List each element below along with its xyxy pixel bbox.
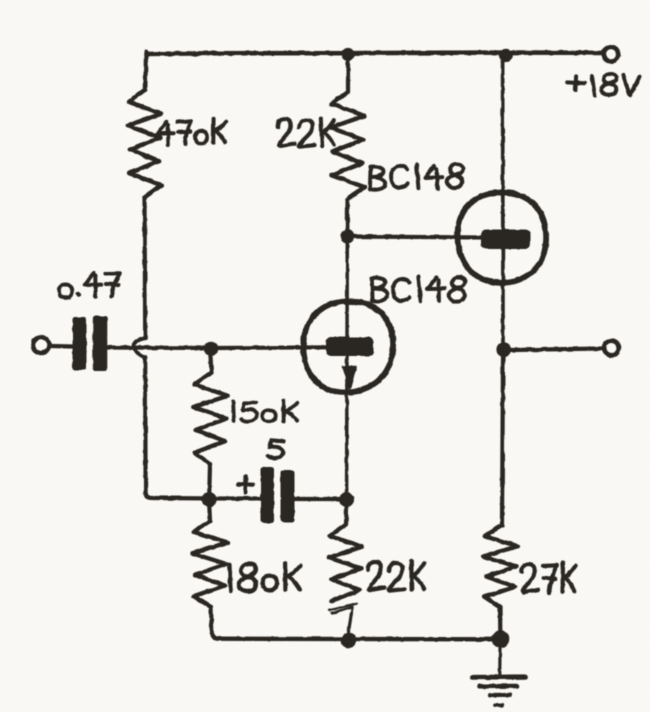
wire 27K bottom lead	[498, 607, 502, 631]
transistor Q1 emitter arrow	[343, 367, 357, 390]
wire left vertical lower	[145, 357, 205, 498]
wire 22K-bottom top lead	[344, 506, 349, 525]
wire 22K-top lead	[346, 56, 350, 92]
resistor R2 22K top	[331, 92, 365, 199]
capacitor C1 0.47 right plate	[93, 316, 108, 371]
label 150K	[233, 401, 298, 422]
node junction top-22K	[341, 48, 354, 61]
resistor R4 180K	[192, 521, 228, 607]
node bottom rail 22K	[341, 633, 357, 649]
transistor Q1 base bar	[327, 338, 373, 355]
wire 470K top lead	[143, 52, 148, 90]
label 180K	[230, 563, 301, 592]
wire C1 to base node	[107, 345, 205, 350]
wire output	[512, 349, 602, 351]
wire top +18V rail	[146, 53, 603, 54]
node output junction	[496, 342, 511, 357]
resistor R3 150K	[193, 373, 228, 464]
wire base node to Q1	[218, 345, 327, 350]
label 0.47	[59, 273, 119, 298]
capacitor C1 0.47 left plate	[73, 317, 87, 370]
terminal input	[33, 337, 49, 353]
wire 22K-bottom lead	[329, 604, 357, 636]
node 5uF right / Q1 emitter	[339, 492, 354, 507]
wire ground stub	[498, 647, 501, 674]
label 22K bottom	[368, 561, 424, 591]
terminal output	[604, 341, 619, 356]
resistor R6 27K	[483, 526, 518, 607]
wire 470K to hop	[142, 197, 147, 338]
wire input to C1	[50, 344, 73, 349]
label 5	[268, 440, 284, 458]
node ground junction	[492, 630, 510, 648]
label BC148 upper	[370, 164, 463, 190]
wire 27K top lead	[502, 356, 503, 526]
wire hop over input wire	[134, 338, 145, 357]
capacitor C2 5uF right plate	[281, 470, 295, 522]
wire 180K to bottom rail	[211, 607, 218, 639]
node Q1 collector / Q2 base	[340, 230, 354, 244]
wire node to C2	[216, 496, 260, 500]
node 5uF left	[202, 492, 217, 507]
wire Q1 collector-emitter vertical	[345, 236, 349, 494]
node base of Q1	[204, 342, 218, 356]
label + of C2	[238, 477, 253, 493]
label 470K	[158, 119, 226, 145]
transistor Q2 base bar	[482, 231, 530, 249]
ground symbol	[473, 677, 527, 706]
node junction top-right	[499, 49, 513, 63]
transistor Q2 circle	[458, 192, 547, 282]
wire bottom rail	[218, 637, 496, 642]
label 22K top	[278, 118, 335, 147]
capacitor C2 5uF left plate	[261, 467, 275, 523]
wire Q2 collector-emitter vertical	[501, 56, 505, 344]
resistor R1 470K	[128, 90, 162, 197]
resistor R5 22K bottom	[329, 525, 362, 601]
wire 180K top lead	[207, 506, 212, 521]
transistor Q1 circle	[303, 301, 393, 392]
wire Q2 base	[354, 237, 483, 238]
label +18V	[567, 74, 639, 96]
label BC148 lower	[372, 277, 465, 302]
wire 22K to collector node	[345, 199, 349, 236]
label 27K	[522, 563, 576, 593]
wire 150K bottom lead	[207, 464, 212, 492]
wire 150K top lead	[211, 356, 212, 373]
wire C2 to right node	[294, 497, 339, 501]
terminal +18V	[604, 47, 618, 61]
